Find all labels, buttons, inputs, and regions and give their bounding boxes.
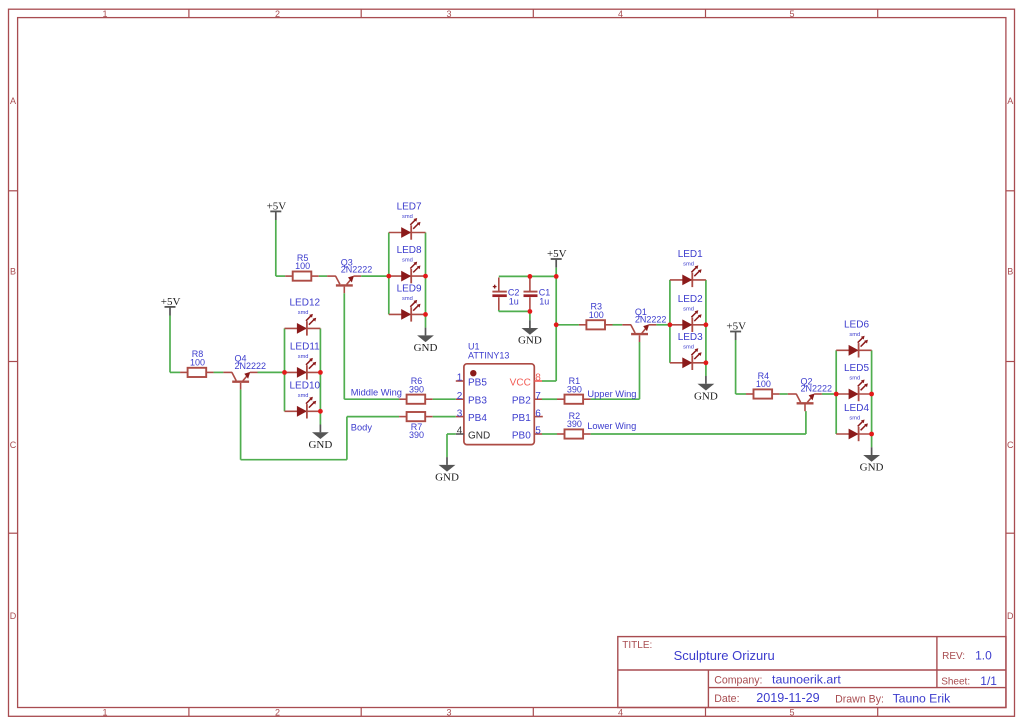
svg-text:2N2222: 2N2222 — [235, 361, 267, 371]
svg-text:taunoerik.art: taunoerik.art — [772, 673, 841, 687]
wire — [805, 411, 807, 434]
wire — [319, 275, 327, 277]
svg-text:390: 390 — [409, 430, 424, 440]
svg-text:D: D — [1007, 611, 1014, 621]
junction — [704, 322, 709, 327]
+5V supply — [161, 296, 181, 315]
svg-text:Sheet:: Sheet: — [941, 677, 970, 688]
svg-text:PB1: PB1 — [512, 413, 531, 424]
wire — [736, 393, 746, 395]
svg-text:smd: smd — [298, 310, 309, 316]
junction — [318, 409, 323, 414]
junction — [386, 274, 391, 279]
svg-text:3: 3 — [446, 708, 451, 718]
svg-text:LED2: LED2 — [678, 294, 703, 305]
svg-text:1u: 1u — [539, 296, 549, 306]
capacitor C1 1u — [524, 279, 551, 310]
LED LED8 — [389, 245, 426, 283]
junction — [869, 432, 874, 437]
svg-text:GND: GND — [308, 439, 332, 451]
svg-text:1u: 1u — [509, 296, 519, 306]
svg-text:4: 4 — [457, 426, 463, 437]
svg-text:Upper Wing: Upper Wing — [587, 389, 636, 399]
junction — [423, 312, 428, 317]
wire — [276, 275, 285, 277]
resistor R8 — [180, 349, 214, 377]
junction — [554, 274, 559, 279]
junction — [528, 274, 533, 279]
svg-text:390: 390 — [567, 419, 582, 429]
wire — [499, 275, 556, 277]
junction — [282, 370, 287, 375]
svg-text:6: 6 — [535, 408, 541, 419]
wire — [433, 416, 456, 418]
svg-text:LED9: LED9 — [397, 283, 422, 294]
wire — [240, 390, 242, 460]
IC U1 ATTINY13 — [464, 342, 534, 445]
svg-text:LED4: LED4 — [844, 403, 869, 414]
svg-text:Tauno Erik: Tauno Erik — [893, 691, 951, 705]
ground — [694, 363, 718, 403]
LED LED11 — [285, 341, 321, 379]
pin 2 PB3 — [456, 391, 488, 407]
wire — [361, 275, 389, 277]
wire — [835, 350, 837, 434]
svg-text:1/1: 1/1 — [980, 674, 997, 688]
wire — [258, 371, 285, 373]
svg-text:GND: GND — [435, 472, 459, 484]
wire — [275, 220, 277, 276]
svg-text:4: 4 — [618, 708, 623, 718]
wire — [705, 280, 707, 363]
svg-text:smd: smd — [683, 262, 694, 268]
wire — [446, 434, 448, 457]
svg-text:smd: smd — [849, 376, 860, 382]
wire — [170, 371, 180, 373]
svg-text:smd: smd — [402, 214, 413, 220]
svg-text:2N2222: 2N2222 — [801, 384, 833, 394]
svg-text:REV:: REV: — [942, 651, 965, 662]
wire — [319, 328, 321, 411]
svg-text:GND: GND — [694, 390, 718, 402]
transistor Q2 2N2222 — [788, 376, 832, 411]
svg-text:1: 1 — [457, 373, 463, 384]
junction — [318, 370, 323, 375]
svg-text:2019-11-29: 2019-11-29 — [756, 691, 820, 705]
wire — [591, 433, 806, 435]
svg-text:390: 390 — [567, 384, 582, 394]
resistor R2 — [557, 411, 591, 439]
LED LED2 — [670, 294, 706, 332]
wire — [346, 417, 348, 460]
svg-text:smd: smd — [402, 296, 413, 302]
svg-text:Lower Wing: Lower Wing — [587, 421, 636, 431]
+5V supply — [726, 321, 746, 340]
wire — [591, 398, 640, 400]
resistor R1 — [557, 376, 591, 404]
wire — [169, 316, 171, 373]
junction — [834, 392, 839, 397]
junction — [668, 322, 673, 327]
wire — [735, 340, 737, 394]
svg-text:2N2222: 2N2222 — [341, 265, 373, 275]
svg-text:PB2: PB2 — [512, 396, 531, 407]
svg-text:smd: smd — [298, 354, 309, 360]
svg-text:100: 100 — [589, 310, 604, 320]
svg-text:2N2222: 2N2222 — [635, 314, 667, 324]
resistor R5 — [285, 253, 319, 281]
svg-text:smd: smd — [849, 416, 860, 422]
svg-text:2: 2 — [457, 391, 463, 402]
svg-text:VCC: VCC — [510, 378, 531, 389]
ground — [518, 311, 542, 346]
transistor Q1 2N2222 — [622, 307, 666, 342]
LED LED12 — [285, 297, 321, 335]
svg-text:A: A — [1007, 96, 1013, 106]
wire — [656, 324, 670, 326]
LED LED1 — [670, 249, 706, 287]
wire — [871, 350, 873, 434]
wire — [639, 342, 641, 399]
svg-text:LED5: LED5 — [844, 363, 869, 374]
resistor R3 — [579, 302, 613, 330]
svg-text:ATTINY13: ATTINY13 — [468, 350, 509, 360]
svg-text:Body: Body — [351, 423, 373, 433]
wire — [542, 433, 557, 435]
svg-text:B: B — [1007, 267, 1013, 277]
wire — [214, 371, 224, 373]
svg-text:LED10: LED10 — [290, 380, 321, 391]
ground — [435, 457, 459, 483]
svg-text:LED11: LED11 — [290, 341, 320, 352]
svg-text:LED6: LED6 — [844, 319, 869, 330]
capacitor C2 1u — [492, 278, 519, 311]
svg-text:7: 7 — [535, 391, 541, 402]
svg-text:C: C — [1007, 440, 1014, 450]
wire — [669, 280, 671, 363]
svg-text:5: 5 — [535, 426, 541, 437]
svg-text:C: C — [10, 440, 17, 450]
svg-text:100: 100 — [756, 379, 771, 389]
LED LED10 — [285, 380, 321, 418]
svg-text:TITLE:: TITLE: — [622, 640, 652, 651]
svg-text:smd: smd — [402, 258, 413, 264]
wire — [556, 324, 579, 326]
svg-text:PB4: PB4 — [468, 413, 487, 424]
svg-text:3: 3 — [446, 9, 451, 19]
svg-text:2: 2 — [275, 708, 280, 718]
svg-text:2: 2 — [275, 9, 280, 19]
LED LED6 — [836, 319, 871, 357]
+5V supply — [267, 201, 287, 220]
pin 6 PB1 — [512, 408, 543, 424]
wire — [499, 310, 530, 312]
svg-text:GND: GND — [414, 342, 438, 354]
svg-text:Drawn By:: Drawn By: — [835, 693, 884, 705]
svg-text:LED3: LED3 — [678, 332, 703, 343]
pin 4 GND — [456, 426, 490, 442]
wire — [780, 393, 788, 395]
svg-text:smd: smd — [683, 344, 694, 350]
wire — [433, 398, 456, 400]
wire — [425, 233, 427, 315]
wire — [613, 324, 623, 326]
svg-text:smd: smd — [298, 393, 309, 399]
svg-text:PB5: PB5 — [468, 378, 487, 389]
LED LED3 — [670, 332, 706, 370]
svg-text:3: 3 — [457, 408, 463, 419]
svg-text:PB0: PB0 — [512, 431, 531, 442]
svg-text:A: A — [10, 96, 16, 106]
pin 1 PB5 — [456, 373, 488, 389]
wire — [498, 310, 500, 311]
svg-text:5: 5 — [789, 9, 794, 19]
transistor Q3 2N2222 — [327, 257, 372, 293]
svg-text:1: 1 — [102, 9, 107, 19]
svg-text:100: 100 — [190, 358, 205, 368]
svg-text:LED8: LED8 — [397, 245, 422, 256]
wire — [555, 268, 557, 381]
svg-text:GND: GND — [518, 335, 542, 347]
svg-text:100: 100 — [295, 261, 310, 271]
svg-text:B: B — [10, 267, 16, 277]
LED LED7 — [389, 202, 426, 240]
pin 7 PB2 — [512, 391, 542, 407]
LED LED9 — [389, 283, 426, 321]
svg-text:390: 390 — [409, 384, 424, 394]
resistor R6 — [399, 376, 433, 404]
resistor R4 — [746, 371, 780, 399]
svg-text:4: 4 — [618, 9, 623, 19]
svg-text:1.0: 1.0 — [975, 649, 992, 663]
ground — [308, 411, 332, 451]
svg-text:LED7: LED7 — [397, 202, 422, 213]
LED LED5 — [836, 363, 871, 401]
ground — [414, 314, 438, 354]
+5V supply — [547, 248, 567, 267]
transistor Q4 2N2222 — [223, 354, 266, 390]
svg-text:GND: GND — [468, 431, 490, 442]
wire — [542, 380, 556, 382]
resistor R7 — [399, 412, 433, 440]
wire — [347, 416, 399, 418]
svg-text:PB3: PB3 — [468, 396, 487, 407]
wire — [343, 293, 345, 399]
svg-text:LED12: LED12 — [290, 297, 321, 308]
junction — [528, 309, 533, 314]
wire — [241, 459, 347, 461]
svg-text:8: 8 — [535, 373, 541, 384]
pin 8 VCC — [510, 373, 542, 389]
svg-text:Sculpture Orizuru: Sculpture Orizuru — [674, 648, 775, 663]
wire — [447, 433, 456, 435]
junction — [423, 274, 428, 279]
pin 3 PB4 — [456, 408, 488, 424]
wire — [284, 328, 286, 411]
LED LED4 — [836, 403, 871, 441]
svg-text:D: D — [10, 611, 17, 621]
wire — [344, 398, 399, 400]
junction — [554, 322, 559, 327]
title block — [618, 637, 1006, 708]
svg-text:smd: smd — [683, 306, 694, 312]
svg-text:5: 5 — [789, 708, 794, 718]
svg-text:Middle Wing: Middle Wing — [351, 388, 402, 398]
svg-text:1: 1 — [102, 708, 107, 718]
pin 5 PB0 — [512, 426, 542, 442]
wire — [822, 393, 836, 395]
svg-text:Company:: Company: — [714, 675, 762, 687]
junction — [869, 392, 874, 397]
svg-text:smd: smd — [849, 332, 860, 338]
svg-text:Date:: Date: — [714, 693, 739, 705]
junction — [704, 360, 709, 365]
wire — [388, 233, 390, 315]
svg-text:LED1: LED1 — [678, 249, 703, 260]
wire — [542, 398, 557, 400]
ground — [860, 434, 884, 474]
svg-text:GND: GND — [860, 462, 884, 474]
